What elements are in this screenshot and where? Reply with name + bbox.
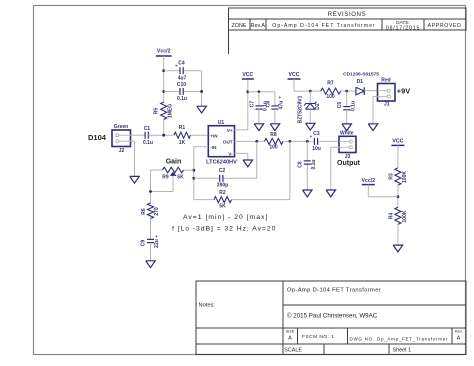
svg-text:APPROVED: APPROVED [428, 23, 462, 29]
svg-text:C3: C3 [313, 131, 320, 137]
svg-text:Vcc/2: Vcc/2 [157, 49, 171, 55]
resistor R3 100K [388, 168, 408, 185]
svg-text:LTC6240HV: LTC6240HV [206, 160, 237, 166]
svg-text:U1: U1 [218, 120, 225, 126]
wire OUT [235, 140, 265, 142]
wire C1 to R1 [148, 134, 174, 136]
svg-text:C7: C7 [249, 101, 255, 108]
svg-text:V+: V+ [227, 128, 233, 133]
node after R8 [289, 140, 292, 143]
resistor R8 100 [265, 132, 284, 151]
ground under C8 [303, 190, 313, 197]
wire C10 branch [164, 91, 202, 93]
svg-text:J1: J1 [384, 101, 390, 107]
svg-text:47u: 47u [279, 101, 285, 110]
svg-text:OUT: OUT [223, 139, 233, 144]
node C4 branch [162, 69, 165, 72]
svg-text:1MEG: 1MEG [168, 104, 174, 118]
wire OUT to C2 [256, 141, 258, 178]
svg-text:R5: R5 [154, 108, 160, 115]
wire Vcc/2 down [163, 56, 165, 135]
svg-text:C1: C1 [144, 126, 151, 132]
capacitor C9 22u [141, 234, 161, 248]
connector J1 +9V input [378, 78, 396, 108]
svg-text:J2: J2 [119, 148, 125, 154]
wire R1 to +IN [191, 134, 209, 136]
svg-text:0.1u: 0.1u [311, 159, 317, 169]
label Gain [166, 159, 182, 166]
svg-text:BZT52C9V1: BZT52C9V1 [297, 95, 303, 123]
svg-text:R3: R3 [388, 173, 394, 180]
label Output [337, 160, 361, 167]
svg-text:VCC: VCC [392, 139, 403, 145]
svg-text:1K: 1K [179, 140, 186, 146]
resistor R1 1K [174, 125, 191, 146]
svg-text:VCC: VCC [242, 72, 253, 78]
svg-text:100K: 100K [402, 210, 408, 222]
wire R2 feedback vertical [289, 141, 291, 199]
svg-text:D2: D2 [315, 103, 321, 110]
svg-text:R9: R9 [162, 174, 169, 180]
wire R8 right [283, 140, 313, 142]
node C5 branch [345, 90, 348, 93]
svg-text:CD1206-S01575: CD1206-S01575 [343, 72, 379, 78]
svg-text:100K: 100K [402, 171, 408, 183]
annotation gain formula [172, 214, 276, 233]
svg-text:Green: Green [114, 124, 128, 130]
svg-text:C4: C4 [178, 61, 185, 67]
svg-text:R8: R8 [270, 132, 277, 138]
wire pot left leg [151, 170, 174, 203]
wire VCC to R7 [294, 79, 321, 91]
svg-text:R1: R1 [179, 125, 186, 131]
wire D1 to J1 [364, 90, 377, 92]
svg-text:100: 100 [326, 94, 335, 100]
svg-text:4u7: 4u7 [178, 76, 187, 82]
wire C8 branch [306, 141, 308, 190]
svg-text:A: A [457, 336, 461, 342]
svg-text:R2: R2 [219, 190, 226, 196]
node C10 branch [162, 90, 165, 93]
wire J2 to C1 [131, 134, 146, 136]
node VCC decoupling junction [246, 90, 249, 93]
node R6 top [149, 190, 152, 193]
svg-text:C8: C8 [298, 161, 304, 168]
wire C3 to J3 [318, 140, 339, 142]
potentiometer R9 5K Gain [162, 167, 184, 191]
wire R7 to D1 [341, 90, 356, 92]
wire pot to -IN node [184, 169, 194, 171]
svg-text:Op-Amp D-104 FET Transformer: Op-Amp D-104 FET Transformer [272, 23, 375, 29]
svg-text:+: + [155, 234, 158, 239]
svg-text:+: + [175, 64, 178, 69]
power symbol VCC divider [391, 139, 404, 146]
zone divider line [228, 30, 230, 54]
svg-text:FSCM NO. 1: FSCM NO. 1 [302, 334, 334, 340]
svg-text:+: + [310, 134, 313, 139]
svg-text:Red: Red [381, 78, 390, 84]
resistor R5 1MEG [154, 102, 174, 120]
wire C4-C10 join [201, 71, 203, 106]
svg-text:J3: J3 [345, 154, 351, 160]
node OUT [255, 140, 258, 143]
op-amp U1 LTC6240HV [206, 120, 237, 165]
svg-text:5K: 5K [177, 174, 184, 180]
node C4-C10 join [200, 90, 203, 93]
svg-text:Output: Output [337, 160, 361, 167]
ground under V- [243, 160, 253, 167]
svg-text:+9V: +9V [397, 87, 411, 96]
svg-text:100: 100 [269, 145, 278, 151]
label +9V [397, 87, 411, 96]
node D2 [309, 90, 312, 93]
svg-text:REVISIONS: REVISIONS [328, 12, 367, 18]
wire C4 branch [164, 70, 202, 72]
svg-text:-IN: -IN [210, 145, 217, 150]
ground under C6 [270, 124, 280, 131]
svg-text:Rev.A: Rev.A [251, 23, 266, 29]
svg-text:V-: V- [228, 151, 233, 156]
svg-text:C9: C9 [141, 240, 147, 247]
svg-text:f [Lo -3dB] = 32 Hz; Av=20: f [Lo -3dB] = 32 Hz; Av=20 [172, 225, 276, 232]
ground under J3 [326, 190, 336, 197]
svg-text:270: 270 [154, 207, 160, 216]
wire C2 branch [194, 177, 257, 179]
svg-text:Av=1 [min] - 20 [max]: Av=1 [min] - 20 [max] [183, 214, 268, 221]
svg-text:C10: C10 [177, 82, 186, 88]
capacitor C4 4u7 [175, 61, 187, 82]
wire R3 to node [397, 185, 399, 207]
svg-text:5K: 5K [219, 204, 226, 210]
capacitor C7 0.1u [249, 92, 268, 124]
svg-text:DWG NO. Op_Amp_FET_Transformer: DWG NO. Op_Amp_FET_Transformer [350, 337, 449, 342]
ground under J1 [368, 124, 378, 131]
wire VCC to R3 [397, 145, 399, 168]
wire J1 pin2 to ground [373, 97, 378, 124]
svg-text:Op-Amp D-104 FET Transformer: Op-Amp D-104 FET Transformer [287, 288, 381, 294]
power symbol VCC supply [288, 72, 301, 79]
capacitor C8 0.1u [298, 159, 317, 169]
svg-text:22u: 22u [154, 239, 160, 248]
svg-text:C6: C6 [265, 101, 271, 108]
node C2 junction [192, 177, 195, 180]
svg-text:C5: C5 [337, 102, 343, 109]
resistor R2 5K [214, 190, 232, 209]
ground under J2 [130, 176, 140, 183]
svg-text:10u: 10u [312, 146, 321, 152]
svg-text:D1: D1 [357, 79, 364, 85]
label D104 [88, 133, 107, 142]
capacitor C3 10u [310, 131, 321, 152]
svg-text:0.1u: 0.1u [350, 101, 356, 111]
connector J2 (D104 input) [112, 124, 131, 154]
wire J3 pin2 to ground [331, 147, 339, 190]
power symbol VCC op-amp [242, 72, 254, 79]
svg-text:SIZE: SIZE [286, 329, 295, 334]
capacitor C10 0.1u [177, 82, 187, 102]
capacitor C1 0.1u [143, 126, 153, 146]
wire J2 pin2 to ground [131, 141, 135, 176]
wire -IN [194, 147, 209, 200]
svg-text:R7: R7 [327, 81, 334, 87]
svg-text:Gain: Gain [166, 159, 182, 166]
svg-text:© 2015 Paul Christensen, W9AC: © 2015 Paul Christensen, W9AC [287, 313, 378, 320]
svg-text:A: A [288, 336, 292, 342]
svg-text:SCALE: SCALE [284, 348, 302, 354]
svg-text:0.1u: 0.1u [177, 96, 187, 102]
power symbol Vcc/2 tap [362, 178, 398, 197]
wire R2 branch [194, 199, 290, 201]
connector J3 Output [339, 130, 356, 160]
svg-text:Notes:: Notes: [199, 303, 216, 309]
node C8 branch [306, 140, 309, 143]
revisions table [229, 8, 467, 31]
capacitor C5 0.1u [337, 91, 356, 124]
svg-text:08/17/2015: 08/17/2015 [386, 25, 420, 31]
svg-text:VCC: VCC [289, 72, 300, 78]
power symbol Vcc/2 top-left [156, 49, 172, 57]
resistor R4 100K [388, 207, 408, 224]
resistor R6 270 [141, 203, 160, 219]
svg-text:R6: R6 [141, 208, 147, 215]
ground under C9 [146, 261, 156, 268]
node C7 [258, 90, 261, 93]
diode D1 CD1206-S01575 [343, 72, 379, 95]
svg-text:C2: C2 [219, 168, 226, 174]
wire C9 to ground [150, 243, 152, 261]
node Vcc/2 divider [397, 195, 400, 198]
svg-text:+IN: +IN [210, 133, 218, 138]
svg-text:R4: R4 [388, 213, 394, 220]
ground under C7 [254, 124, 264, 131]
ground under C4/C10 [197, 106, 207, 113]
node Vcc/2 bias junction [162, 134, 165, 137]
ground under C5 [342, 124, 352, 131]
wire V- to ground [235, 153, 248, 160]
svg-text:0.1u: 0.1u [143, 140, 153, 146]
capacitor C6 47u [265, 92, 284, 124]
svg-text:D104: D104 [88, 133, 107, 142]
resistor R7 100 [321, 81, 341, 100]
svg-text:Rev.: Rev. [455, 329, 463, 334]
ground under D2 [306, 123, 316, 130]
capacitor C2 390p [217, 168, 228, 189]
ground under R4 [393, 245, 403, 252]
node pot junction [192, 169, 195, 172]
zener diode D2 BZT52C9V1 [297, 91, 321, 123]
wire R6 to C9 [150, 219, 152, 240]
svg-text:+: + [278, 95, 281, 100]
svg-text:Sheet 1: Sheet 1 [393, 348, 412, 354]
title block [196, 281, 466, 355]
wire decoupling branch [248, 91, 275, 93]
svg-text:ZONE: ZONE [232, 23, 247, 29]
wire R4 to ground [397, 224, 399, 245]
svg-text:Vcc/2: Vcc/2 [362, 178, 376, 184]
wire V+ to VCC [235, 79, 248, 130]
svg-text:390p: 390p [217, 183, 228, 189]
